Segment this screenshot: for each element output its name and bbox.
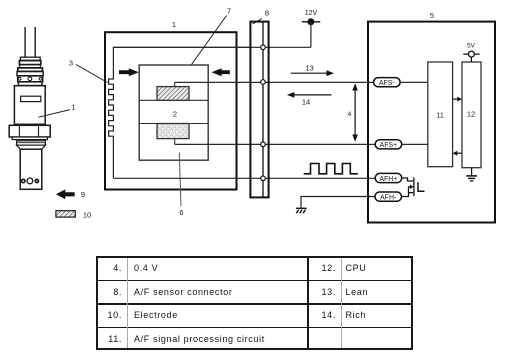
svg-text:AFH-: AFH- [380, 194, 397, 201]
sensor ring band [17, 141, 46, 145]
wire AFS- to box 11 [400, 81, 428, 83]
svg-text:10: 10 [83, 211, 91, 220]
svg-text:9: 9 [81, 190, 85, 199]
terminal at 12V row [261, 45, 266, 50]
sensor vent holes [22, 178, 39, 184]
svg-text:1: 1 [172, 20, 176, 29]
row 4: 0.4 V [98, 258, 122, 280]
svg-text:7: 7 [227, 7, 231, 16]
wire: 12V heater supply row [113, 46, 311, 48]
element box (7) [139, 65, 208, 160]
svg-text:5V: 5V [467, 42, 476, 49]
wire: AFS+ sense row [175, 143, 376, 145]
arrow 14 (Rich, from CPU) [287, 92, 332, 98]
sensor body [14, 86, 45, 125]
svg-text:8: 8 [265, 9, 269, 18]
sensor connector cap stack [17, 57, 43, 85]
transistor Q1 channel bar [413, 177, 415, 196]
svg-text:13: 13 [305, 64, 313, 73]
A/F signal processing circuit box 11 [428, 62, 453, 167]
svg-text:1: 1 [71, 103, 75, 112]
CPU box 12 [462, 62, 481, 168]
square wave (heater duty signal) [304, 164, 358, 174]
sensor shield tube [20, 149, 42, 189]
svg-text:5: 5 [430, 11, 434, 20]
svg-text:6: 6 [179, 208, 183, 217]
svg-text:AFS-: AFS- [379, 80, 396, 87]
ground under CPU box 12 [466, 168, 477, 181]
row 10: Electrode [98, 305, 122, 327]
svg-text:AFH+: AFH+ [379, 176, 397, 183]
label 6 leader [179, 152, 181, 206]
label 7 leader [192, 16, 227, 65]
outer box 1 (sensor assembly) [105, 32, 237, 189]
terminal at AFS- row [261, 80, 266, 85]
double arrow 4 (0.4V span) [352, 83, 358, 141]
svg-text:3: 3 [69, 59, 73, 68]
sensor taper [17, 145, 46, 149]
terminal at AFS+ row [261, 142, 266, 147]
sensor hex nut [9, 125, 50, 137]
terminal oval AFH+ [375, 173, 402, 182]
chassis ground [296, 208, 307, 213]
svg-text:12V: 12V [305, 10, 318, 17]
terminal at AFH+ row [261, 176, 266, 181]
label 3 leader [76, 65, 108, 83]
connector strip 8 [250, 22, 268, 198]
svg-text:4: 4 [348, 111, 352, 118]
label 8 leader [253, 19, 263, 25]
heater circuit loop with heater zigzag 3 [109, 47, 251, 178]
legend table [96, 256, 413, 350]
electrode swatch 10 [56, 211, 75, 217]
row 13: Lean [308, 282, 336, 304]
arrow 9 (exhaust gas) [56, 189, 75, 199]
transistor Q1 drain lead [402, 178, 414, 181]
row 8: A/F sensor connector [98, 282, 122, 304]
arrow 13 (Lean, to CPU) [291, 70, 334, 76]
wire: AFS- sense row [175, 81, 374, 83]
bottom electrode [157, 124, 189, 145]
terminal oval AFS- [374, 78, 401, 87]
terminal oval AFS+ [375, 140, 402, 149]
wire: AFH- row to ground [301, 197, 375, 209]
arrow 11 to 12 [453, 97, 462, 102]
row 12: CPU [308, 258, 336, 280]
ECU box 5 [368, 22, 495, 223]
row 14: Rich [308, 305, 336, 327]
wire: AFH+ heater row [113, 177, 375, 179]
svg-text:2: 2 [173, 110, 177, 119]
wire AFS+ to box 11 [402, 143, 428, 145]
12V supply terminal [302, 18, 321, 47]
5V supply [463, 51, 480, 62]
exhaust arrow right (into element) [212, 68, 230, 76]
top electrode [157, 82, 189, 100]
transistor Q1 gate [418, 182, 425, 191]
terminal oval AFH- [375, 192, 402, 201]
sensor washer [12, 137, 47, 140]
svg-text:AFS+: AFS+ [380, 142, 398, 149]
svg-text:12: 12 [467, 110, 475, 119]
svg-text:14: 14 [302, 98, 310, 107]
sensor lead wires [25, 27, 35, 57]
zirconia band 2 [139, 100, 208, 123]
transistor Q1 source lead with body arrow [402, 185, 414, 197]
row 11: A/F signal processing circuit [98, 329, 122, 351]
exhaust arrow left (into element) [119, 68, 139, 76]
label 1 (sensor) leader [39, 110, 71, 118]
arrow 12 to 11 [453, 151, 462, 156]
table grid lines [98, 280, 411, 282]
svg-text:11: 11 [436, 111, 444, 120]
